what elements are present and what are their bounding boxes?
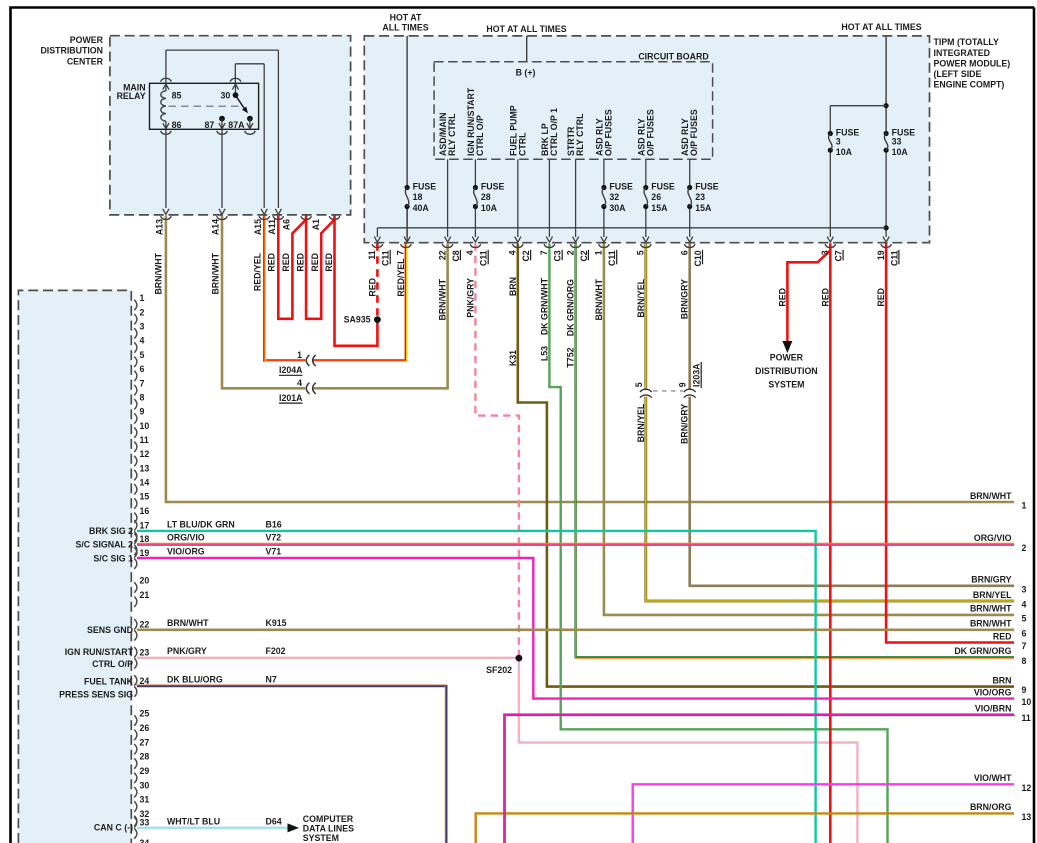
- svg-text:C10: C10: [693, 250, 703, 266]
- svg-text:FUEL TANK: FUEL TANK: [84, 677, 134, 687]
- svg-text:BRN/ORG: BRN/ORG: [970, 802, 1012, 812]
- svg-text:BRN/GRY: BRN/GRY: [680, 279, 690, 319]
- svg-text:VIO/ORG: VIO/ORG: [974, 687, 1012, 697]
- svg-text:S/C SIG 1: S/C SIG 1: [93, 553, 133, 563]
- svg-text:FUSE: FUSE: [609, 181, 633, 191]
- svg-text:2: 2: [565, 250, 575, 255]
- svg-text:4: 4: [508, 250, 518, 255]
- svg-text:29: 29: [140, 766, 150, 776]
- svg-text:6: 6: [680, 250, 690, 255]
- svg-text:2: 2: [140, 307, 145, 317]
- svg-text:20: 20: [140, 576, 150, 586]
- svg-text:5: 5: [140, 350, 145, 360]
- svg-text:5: 5: [1022, 613, 1027, 623]
- svg-text:22: 22: [437, 250, 447, 260]
- svg-text:BRN/YEL: BRN/YEL: [973, 590, 1012, 600]
- svg-text:24: 24: [140, 676, 150, 686]
- svg-text:14: 14: [140, 478, 150, 488]
- svg-text:30: 30: [140, 780, 150, 790]
- svg-text:12: 12: [1022, 783, 1032, 793]
- svg-text:7: 7: [539, 250, 549, 255]
- svg-text:15A: 15A: [651, 203, 668, 213]
- svg-text:BRN/WHT: BRN/WHT: [970, 619, 1012, 629]
- svg-text:21: 21: [140, 590, 150, 600]
- svg-text:23: 23: [695, 192, 705, 202]
- svg-text:CAN C (-): CAN C (-): [94, 822, 133, 832]
- svg-text:DK GRN/ORG: DK GRN/ORG: [566, 279, 576, 336]
- svg-text:BRN/WHT: BRN/WHT: [154, 252, 164, 294]
- svg-text:BRN/GRY: BRN/GRY: [971, 575, 1011, 585]
- svg-text:9: 9: [140, 407, 145, 417]
- svg-text:RED/YEL: RED/YEL: [253, 252, 263, 291]
- svg-text:(LEFT SIDE: (LEFT SIDE: [934, 69, 982, 79]
- svg-text:RED: RED: [295, 253, 305, 272]
- svg-text:15A: 15A: [695, 203, 712, 213]
- svg-text:FUSE: FUSE: [651, 181, 675, 191]
- svg-text:B16: B16: [266, 519, 282, 529]
- svg-text:10A: 10A: [481, 203, 498, 213]
- svg-text:C11: C11: [889, 250, 899, 266]
- svg-text:10A: 10A: [836, 147, 853, 157]
- svg-text:22: 22: [140, 620, 150, 630]
- svg-text:RED: RED: [820, 288, 830, 307]
- svg-text:26: 26: [140, 723, 150, 733]
- svg-text:A1: A1: [311, 219, 321, 230]
- svg-text:ENGINE COMPT): ENGINE COMPT): [934, 80, 1005, 90]
- svg-text:4: 4: [1022, 600, 1027, 610]
- svg-text:10: 10: [140, 421, 150, 431]
- svg-text:RLY CTRL: RLY CTRL: [575, 113, 585, 156]
- svg-text:85: 85: [172, 90, 182, 100]
- svg-text:VIO/BRN: VIO/BRN: [975, 703, 1012, 713]
- svg-text:30: 30: [221, 90, 231, 100]
- svg-text:CTRL O/P 1: CTRL O/P 1: [549, 108, 559, 156]
- svg-text:BRN: BRN: [508, 277, 518, 296]
- svg-text:POWER MODULE): POWER MODULE): [934, 58, 1011, 68]
- svg-text:32: 32: [609, 192, 619, 202]
- svg-text:C8: C8: [451, 250, 461, 261]
- svg-text:19: 19: [876, 250, 886, 260]
- svg-text:ORG/VIO: ORG/VIO: [974, 533, 1012, 543]
- svg-text:O/P FUSES: O/P FUSES: [689, 109, 699, 156]
- svg-text:BRN/YEL: BRN/YEL: [636, 278, 646, 317]
- svg-text:C2: C2: [579, 250, 589, 261]
- svg-text:17: 17: [140, 521, 150, 531]
- svg-text:C7: C7: [834, 250, 844, 261]
- svg-text:CENTER: CENTER: [67, 56, 104, 66]
- svg-text:4: 4: [297, 378, 302, 388]
- svg-text:I201A: I201A: [279, 393, 303, 403]
- svg-text:RED: RED: [310, 253, 320, 272]
- svg-text:HOT AT ALL TIMES: HOT AT ALL TIMES: [486, 24, 566, 34]
- svg-text:BRN/WHT: BRN/WHT: [167, 618, 209, 628]
- svg-text:C11: C11: [479, 250, 489, 266]
- svg-text:7: 7: [140, 378, 145, 388]
- svg-text:I204A: I204A: [279, 365, 303, 375]
- svg-text:34: 34: [140, 838, 150, 843]
- svg-text:CIRCUIT BOARD: CIRCUIT BOARD: [638, 51, 708, 61]
- svg-text:PNK/GRY: PNK/GRY: [465, 278, 475, 318]
- svg-text:27: 27: [140, 737, 150, 747]
- svg-text:1: 1: [594, 250, 604, 255]
- svg-text:BRN/WHT: BRN/WHT: [438, 278, 448, 320]
- svg-text:VIO/ORG: VIO/ORG: [167, 546, 205, 556]
- svg-text:33: 33: [892, 137, 902, 147]
- svg-text:BRN/WHT: BRN/WHT: [970, 491, 1012, 501]
- svg-text:V71: V71: [266, 546, 282, 556]
- svg-text:O/P FUSES: O/P FUSES: [645, 109, 655, 156]
- svg-text:A15: A15: [253, 219, 263, 235]
- svg-text:K915: K915: [266, 618, 287, 628]
- svg-text:RELAY: RELAY: [117, 91, 146, 101]
- svg-text:SF202: SF202: [486, 665, 512, 675]
- svg-text:RED: RED: [367, 278, 377, 297]
- svg-text:RED: RED: [993, 631, 1012, 641]
- svg-text:C11: C11: [607, 250, 617, 266]
- svg-text:PNK/GRY: PNK/GRY: [167, 646, 207, 656]
- svg-text:V72: V72: [266, 533, 282, 543]
- svg-text:DISTRIBUTION: DISTRIBUTION: [40, 46, 103, 56]
- svg-text:28: 28: [140, 752, 150, 762]
- svg-text:ORG/VIO: ORG/VIO: [167, 533, 205, 543]
- svg-text:3: 3: [836, 137, 841, 147]
- svg-text:31: 31: [140, 795, 150, 805]
- svg-text:11: 11: [367, 250, 377, 259]
- svg-text:19: 19: [140, 548, 150, 558]
- svg-text:9: 9: [1022, 685, 1027, 695]
- svg-text:CTRL O/P: CTRL O/P: [475, 115, 485, 156]
- svg-text:33: 33: [140, 818, 150, 828]
- svg-text:PRESS SENS SIG: PRESS SENS SIG: [59, 690, 133, 700]
- svg-text:1: 1: [140, 293, 145, 303]
- svg-text:POWER: POWER: [70, 35, 104, 45]
- svg-text:T752: T752: [566, 347, 576, 367]
- svg-text:25: 25: [140, 709, 150, 719]
- svg-text:O/P FUSES: O/P FUSES: [603, 109, 613, 156]
- svg-text:26: 26: [651, 192, 661, 202]
- svg-text:A14: A14: [210, 219, 220, 235]
- svg-text:A6: A6: [282, 219, 292, 230]
- svg-text:RED: RED: [324, 253, 334, 272]
- svg-text:BRN/WHT: BRN/WHT: [210, 252, 220, 294]
- svg-text:DK GRN/ORG: DK GRN/ORG: [954, 646, 1011, 656]
- svg-text:3: 3: [140, 322, 145, 332]
- svg-text:ALL TIMES: ALL TIMES: [382, 23, 428, 33]
- svg-text:BRN: BRN: [992, 675, 1011, 685]
- svg-text:RED: RED: [267, 253, 277, 272]
- svg-text:7: 7: [1022, 641, 1027, 651]
- svg-text:6: 6: [1022, 628, 1027, 638]
- svg-text:SA935: SA935: [344, 314, 371, 324]
- svg-text:3: 3: [1022, 584, 1027, 594]
- svg-text:28: 28: [481, 192, 491, 202]
- svg-text:2: 2: [1022, 543, 1027, 553]
- svg-text:L53: L53: [539, 346, 549, 361]
- svg-text:B (+): B (+): [516, 68, 536, 78]
- svg-text:4: 4: [140, 336, 145, 346]
- svg-text:WHT/LT BLU: WHT/LT BLU: [167, 816, 220, 826]
- svg-text:1: 1: [297, 350, 302, 360]
- svg-text:8: 8: [1022, 656, 1027, 666]
- svg-text:N7: N7: [266, 674, 277, 684]
- svg-text:RLY CTRL: RLY CTRL: [447, 113, 457, 156]
- svg-text:FUSE: FUSE: [695, 181, 719, 191]
- svg-text:30A: 30A: [609, 203, 626, 213]
- svg-text:10A: 10A: [892, 147, 909, 157]
- svg-text:BRN/WHT: BRN/WHT: [594, 278, 604, 320]
- svg-text:FUSE: FUSE: [413, 181, 437, 191]
- svg-text:A13: A13: [154, 219, 164, 235]
- svg-text:I203A: I203A: [692, 363, 702, 387]
- svg-text:C2: C2: [521, 250, 531, 261]
- svg-text:16: 16: [140, 506, 150, 516]
- svg-text:C11: C11: [381, 250, 391, 266]
- svg-text:8: 8: [140, 392, 145, 402]
- svg-text:15: 15: [140, 492, 150, 502]
- svg-text:23: 23: [140, 648, 150, 658]
- svg-text:18: 18: [413, 192, 423, 202]
- svg-text:BRN/GRY: BRN/GRY: [680, 404, 690, 444]
- svg-text:DK BLU/ORG: DK BLU/ORG: [167, 674, 223, 684]
- svg-text:K31: K31: [508, 350, 518, 366]
- svg-text:SYSTEM: SYSTEM: [303, 833, 339, 843]
- svg-text:TIPM (TOTALLY: TIPM (TOTALLY: [934, 37, 999, 47]
- svg-text:9: 9: [678, 382, 688, 387]
- svg-text:D64: D64: [266, 816, 282, 826]
- svg-text:RED/YEL: RED/YEL: [396, 258, 406, 297]
- svg-text:18: 18: [140, 534, 150, 544]
- svg-text:40A: 40A: [413, 203, 430, 213]
- svg-text:DISTRIBUTION: DISTRIBUTION: [755, 366, 818, 376]
- svg-text:87A: 87A: [228, 120, 245, 130]
- svg-text:SENS GND: SENS GND: [87, 625, 133, 635]
- svg-text:5: 5: [636, 250, 646, 255]
- svg-text:RED: RED: [281, 253, 291, 272]
- svg-text:S/C SIGNAL 2: S/C SIGNAL 2: [75, 540, 133, 550]
- svg-text:1: 1: [1022, 501, 1027, 511]
- svg-text:87: 87: [205, 120, 215, 130]
- svg-text:3: 3: [820, 250, 830, 255]
- svg-text:4: 4: [465, 250, 475, 255]
- svg-text:86: 86: [172, 120, 182, 130]
- svg-text:BRK SIG 2: BRK SIG 2: [89, 526, 133, 536]
- svg-text:CTRL O/P: CTRL O/P: [92, 659, 133, 669]
- svg-text:5: 5: [634, 382, 644, 387]
- svg-text:7: 7: [396, 250, 406, 255]
- svg-text:POWER: POWER: [770, 353, 804, 363]
- svg-text:BRN/YEL: BRN/YEL: [636, 403, 646, 442]
- svg-text:HOT AT: HOT AT: [390, 12, 422, 22]
- svg-text:SYSTEM: SYSTEM: [768, 380, 804, 390]
- svg-text:11: 11: [1022, 713, 1031, 723]
- svg-text:LT BLU/DK GRN: LT BLU/DK GRN: [167, 519, 235, 529]
- svg-text:CTRL: CTRL: [517, 132, 527, 156]
- svg-text:F202: F202: [266, 646, 286, 656]
- svg-text:C3: C3: [553, 250, 563, 261]
- svg-text:6: 6: [140, 364, 145, 374]
- svg-text:13: 13: [1022, 812, 1032, 822]
- svg-text:12: 12: [140, 449, 150, 459]
- svg-text:BRN/WHT: BRN/WHT: [970, 604, 1012, 614]
- svg-text:10: 10: [1022, 697, 1032, 707]
- svg-text:FUSE: FUSE: [481, 181, 505, 191]
- svg-text:11: 11: [140, 435, 149, 445]
- svg-text:INTEGRATED: INTEGRATED: [934, 48, 991, 58]
- svg-text:VIO/WHT: VIO/WHT: [974, 773, 1012, 783]
- svg-text:A11: A11: [267, 219, 277, 235]
- svg-text:DK GRN/WHT: DK GRN/WHT: [539, 277, 549, 335]
- svg-text:HOT AT ALL TIMES: HOT AT ALL TIMES: [841, 22, 921, 32]
- svg-text:RED: RED: [777, 288, 787, 307]
- svg-text:IGN RUN/START: IGN RUN/START: [65, 647, 134, 657]
- svg-text:13: 13: [140, 463, 150, 473]
- svg-text:RED: RED: [876, 288, 886, 307]
